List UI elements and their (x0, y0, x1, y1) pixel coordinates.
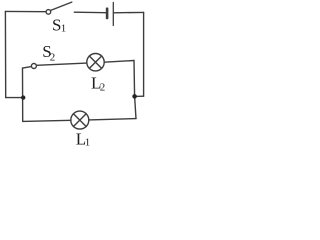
switch S1 pivot (46, 10, 51, 15)
wire top-left segment (5, 10, 46, 12)
switch S2 blade wire to L2 (36, 63, 86, 65)
wire inner right vertical (134, 61, 136, 119)
svg-text:2: 2 (50, 51, 56, 63)
lamp L2 (87, 54, 104, 71)
node junction left (21, 95, 25, 99)
wire L2-to-right-corner (104, 61, 134, 63)
svg-text:1: 1 (61, 23, 66, 35)
label S1 (52, 16, 66, 35)
label L2 (91, 74, 105, 94)
battery negative plate (106, 9, 109, 18)
label L1 (76, 129, 90, 148)
switch S1 blade (51, 2, 72, 10)
wire right outer vertical (143, 12, 145, 96)
wire battery-to-corner (114, 11, 143, 13)
wire left-corner-to-S2 (23, 67, 32, 69)
wire left junction stub (6, 97, 24, 99)
wire bottom-left segment (23, 120, 71, 121)
wire bottom-right segment (89, 119, 136, 120)
wire right junction stub (135, 95, 144, 97)
svg-text:1: 1 (85, 137, 91, 149)
wire left outer vertical (4, 11, 6, 97)
wire inner left vertical (22, 68, 24, 121)
wire switch-to-battery (74, 11, 106, 14)
lamp L1 (71, 111, 89, 129)
label S2 (42, 42, 55, 63)
battery positive plate (112, 3, 114, 26)
switch S2 pivot (31, 64, 36, 69)
svg-text:2: 2 (100, 82, 106, 94)
node junction right (132, 94, 137, 99)
